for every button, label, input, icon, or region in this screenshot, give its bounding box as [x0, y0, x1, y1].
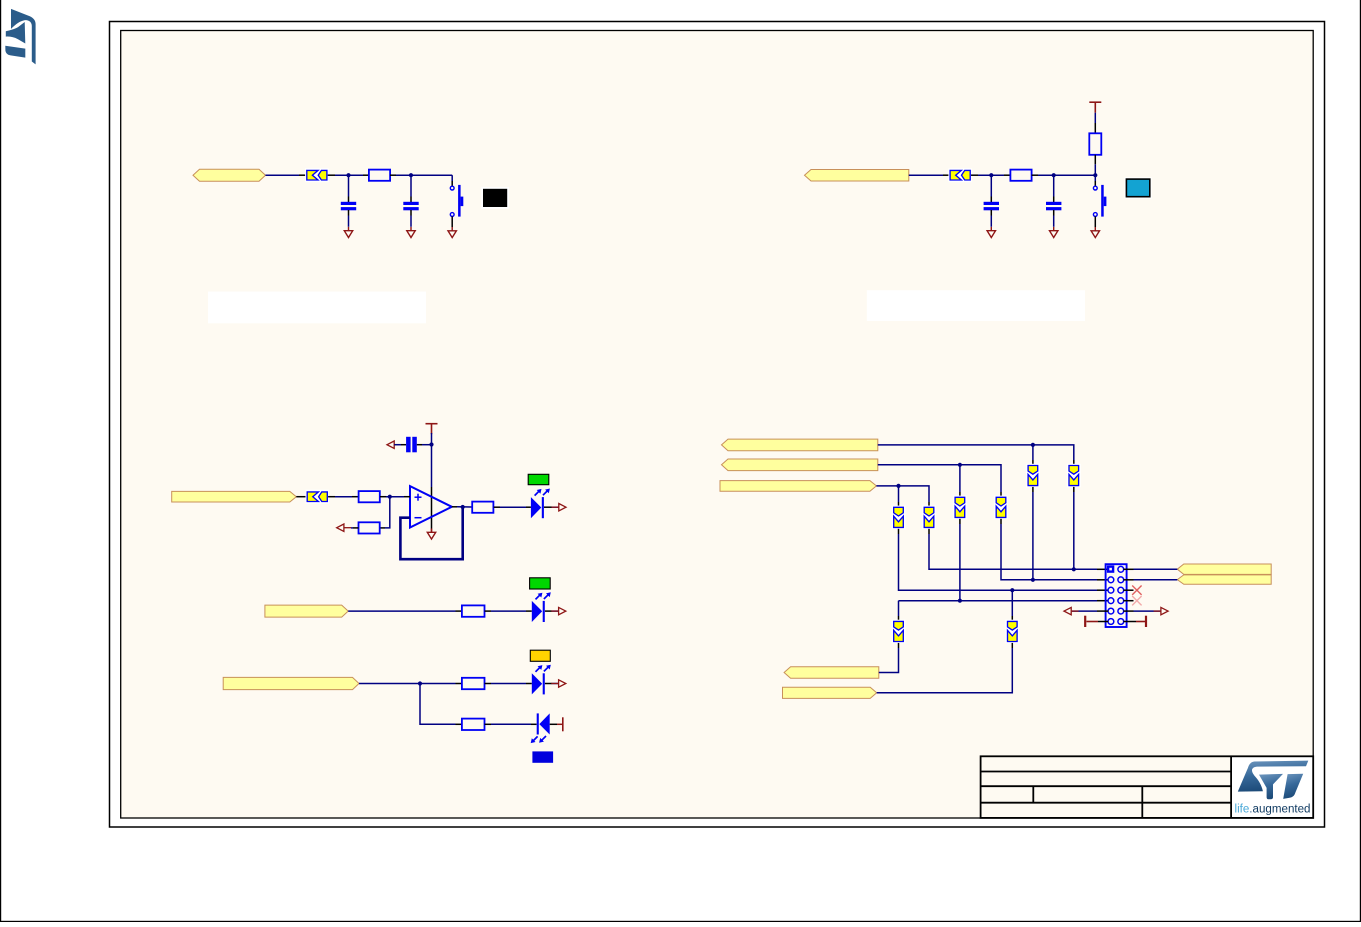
svg-text:life.augmented: life.augmented — [1235, 804, 1311, 816]
